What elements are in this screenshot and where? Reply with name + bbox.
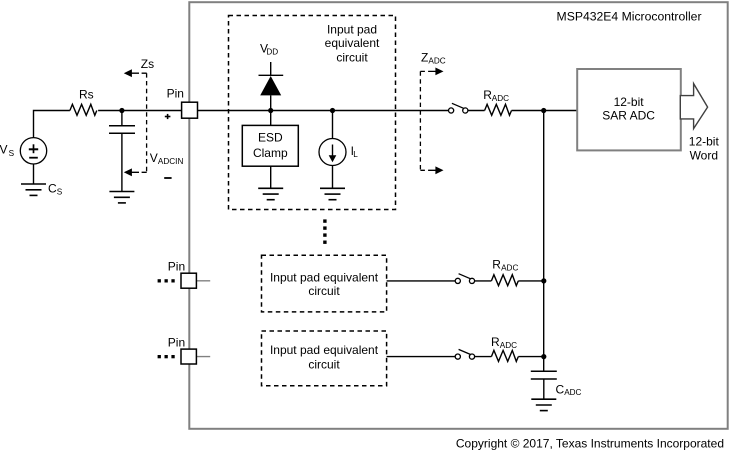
svg-text:equivalent: equivalent [325,36,380,50]
svg-text:SAR ADC: SAR ADC [602,108,655,122]
svg-text:DD: DD [266,47,278,56]
svg-text:circuit: circuit [336,50,368,64]
svg-text:S: S [9,149,15,158]
svg-text:ADC: ADC [501,263,518,272]
svg-text:Pin: Pin [167,87,184,101]
svg-text:Input pad equivalent: Input pad equivalent [270,343,379,357]
svg-text:V: V [150,151,158,165]
svg-text:C: C [556,382,565,396]
svg-text:12-bit: 12-bit [614,95,645,109]
svg-text:Input pad equivalent: Input pad equivalent [270,270,379,284]
svg-text:Clamp: Clamp [253,146,288,160]
svg-text:Pin: Pin [168,336,185,350]
svg-text:R: R [491,335,500,349]
svg-text:Pin: Pin [168,260,185,274]
svg-text:ADC: ADC [564,388,581,397]
svg-text:Z: Z [421,51,428,65]
svg-text:12-bit: 12-bit [689,134,720,148]
svg-text:ADC: ADC [500,341,517,350]
svg-text:MSP432E4 Microcontroller: MSP432E4 Microcontroller [557,10,702,24]
svg-text:Input pad: Input pad [327,22,377,36]
svg-text:circuit: circuit [308,358,340,372]
svg-text:L: L [353,150,358,159]
svg-text:ADC: ADC [428,57,445,66]
svg-text:Word: Word [690,148,718,162]
svg-text:C: C [48,182,57,196]
svg-text:Rs: Rs [79,88,94,102]
svg-text:Copyright © 2017, Texas Instru: Copyright © 2017, Texas Instruments Inco… [456,436,724,450]
svg-text:R: R [492,257,501,271]
svg-text:V: V [0,142,8,156]
svg-text:Zs: Zs [141,57,154,71]
svg-text:circuit: circuit [308,284,340,298]
svg-text:S: S [57,187,63,196]
svg-text:ADCIN: ADCIN [158,157,184,166]
svg-text:ADC: ADC [492,94,509,103]
svg-text:ESD: ESD [258,130,283,144]
